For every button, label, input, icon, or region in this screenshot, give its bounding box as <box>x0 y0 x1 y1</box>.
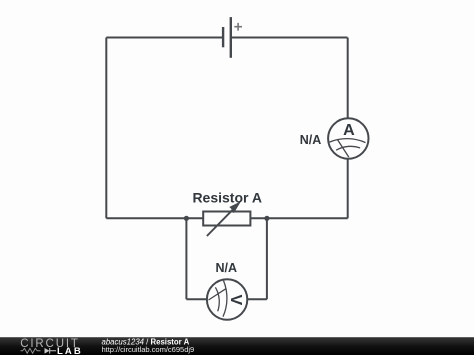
node junction left <box>184 216 189 221</box>
wire branch right horizontal <box>247 298 267 300</box>
wire resistor row left <box>106 217 203 219</box>
battery positive plate <box>230 17 232 58</box>
svg-text:LAB: LAB <box>57 346 83 355</box>
wire branch right vertical <box>266 218 268 299</box>
battery plus polarity mark <box>234 23 242 31</box>
svg-text:Resistor A: Resistor A <box>192 189 262 205</box>
wire top-left: battery to left corner <box>106 37 223 39</box>
svg-text:N/A: N/A <box>300 133 322 147</box>
svg-text:http://circuitlab.com/c695dj9: http://circuitlab.com/c695dj9 <box>102 345 195 354</box>
svg-text:N/A: N/A <box>216 261 238 275</box>
wire top-right: battery to right corner <box>231 37 348 39</box>
logo resistor zigzag <box>21 348 41 353</box>
wire resistor row right <box>250 217 347 219</box>
wire right side lower <box>347 159 349 219</box>
wire left side <box>105 38 107 219</box>
resistor R1 arrow <box>207 201 241 236</box>
wire branch left vertical <box>185 218 187 299</box>
svg-text:V: V <box>227 294 244 305</box>
resistor R1 box <box>203 212 250 226</box>
svg-text:A: A <box>343 122 355 139</box>
battery negative plate <box>222 27 224 47</box>
voltmeter M2 <box>207 279 247 319</box>
ammeter M1 <box>328 118 368 158</box>
battery V1 <box>223 17 242 58</box>
node junction right <box>264 216 269 221</box>
wire right side upper <box>347 38 349 119</box>
footer bar <box>0 337 474 355</box>
logo diode <box>45 348 57 354</box>
wire branch left horizontal <box>186 298 207 300</box>
